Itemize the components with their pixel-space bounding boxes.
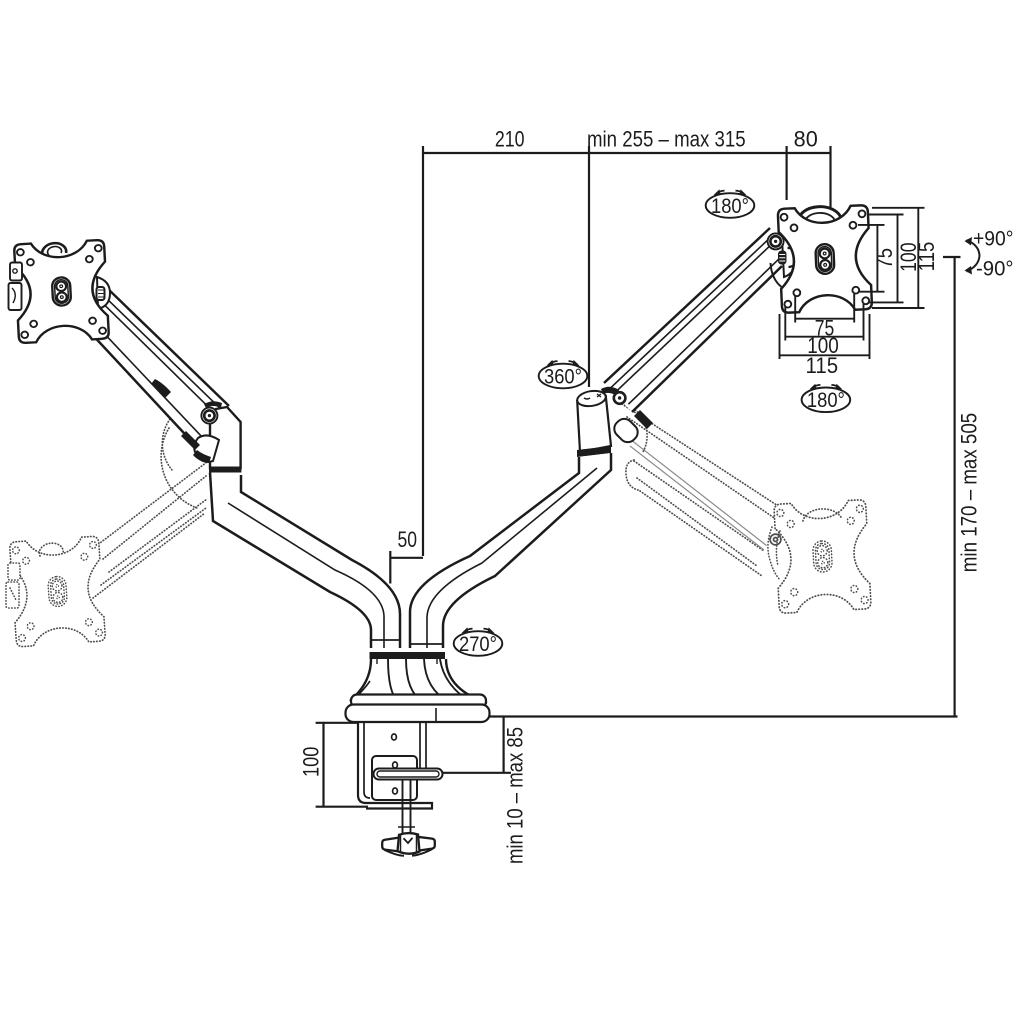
label 210 xyxy=(495,127,525,152)
dimension 50 xyxy=(390,551,423,584)
right plate pivot screw xyxy=(768,233,784,249)
clamp screw and wing knob xyxy=(382,779,435,856)
svg-text:min 10 – max 85: min 10 – max 85 xyxy=(503,727,528,864)
label 75 vertical xyxy=(872,248,897,269)
ghost right VESA plate (dotted) xyxy=(774,500,871,614)
oval 270 xyxy=(454,627,503,656)
svg-text:270°: 270° xyxy=(459,633,497,656)
ghost right arm (dotted lowered position) xyxy=(622,403,795,576)
left plate hinge xyxy=(97,277,111,309)
ghost right plate swivel ring (dotted) xyxy=(803,509,842,521)
right plate swivel ring xyxy=(799,207,841,224)
right lower arm tube into post xyxy=(410,453,611,648)
flared trumpet base xyxy=(350,659,487,703)
right VESA plate xyxy=(778,205,872,313)
svg-text:210: 210 xyxy=(495,127,525,152)
left plate swivel ring xyxy=(42,243,66,256)
base plate xyxy=(346,695,490,723)
+90/-90 tilt arrows xyxy=(965,227,1014,280)
left VESA plate xyxy=(14,240,109,343)
desk clamp bracket xyxy=(353,722,433,809)
oval 360 xyxy=(539,360,588,389)
right arm dark spring stripe xyxy=(634,410,653,429)
ghost left plate swivel ring (dotted) xyxy=(39,543,63,556)
svg-text:180°: 180° xyxy=(711,195,749,218)
svg-text:50: 50 xyxy=(398,527,418,552)
desk thickness dimension xyxy=(442,717,511,773)
ghost right plate hinge (dotted) xyxy=(768,527,780,580)
svg-text:75: 75 xyxy=(872,248,897,269)
right elbow joint xyxy=(576,387,641,457)
left elbow pivot screw xyxy=(201,408,217,424)
svg-text:min 255 – max 315: min 255 – max 315 xyxy=(587,127,746,152)
label 50 xyxy=(398,527,418,552)
post collar rings and clamp band xyxy=(370,640,446,659)
right arm upper gas-spring segment xyxy=(604,225,786,412)
ghost left VESA plate (dotted) xyxy=(9,536,105,647)
left arm upper gas-spring segment xyxy=(88,288,229,446)
svg-text:80: 80 xyxy=(794,127,818,152)
clamp height dimension xyxy=(316,723,368,807)
svg-text:180°: 180° xyxy=(807,389,845,412)
svg-text:115: 115 xyxy=(806,353,839,378)
ghost right pivot screw xyxy=(770,534,781,545)
VESA horizontal dimension lines xyxy=(780,294,870,359)
ghost left arm (dotted lowered position) xyxy=(93,407,207,598)
right elbow pivot screw xyxy=(614,392,626,404)
left arm dark spring cap xyxy=(151,379,171,398)
label 100 clamp xyxy=(299,747,324,777)
left plate side clip xyxy=(9,263,23,311)
svg-text:+90°: +90° xyxy=(973,227,1014,250)
right plate hinge xyxy=(771,238,798,287)
left elbow joint xyxy=(181,401,241,472)
svg-text:360°: 360° xyxy=(544,365,582,388)
svg-text:115: 115 xyxy=(914,242,939,271)
oval 180 bottom xyxy=(802,384,851,413)
VESA vertical dimension lines xyxy=(858,208,925,308)
label 115 vertical xyxy=(914,242,939,271)
label min 255 - max 315 xyxy=(587,127,746,152)
label 80 xyxy=(794,127,818,152)
right height dimension line xyxy=(943,257,961,716)
label 75 horizontal xyxy=(815,316,835,341)
top dimension line xyxy=(423,146,831,387)
label min 170 - max 505 xyxy=(956,413,981,572)
svg-text:100: 100 xyxy=(299,747,324,777)
label 115 horizontal xyxy=(806,353,839,378)
label 100 horizontal xyxy=(807,333,839,358)
center vertical dimension line xyxy=(422,146,424,556)
clamp shelf plate xyxy=(374,769,443,780)
svg-text:-90°: -90° xyxy=(976,258,1014,281)
left lower arm tube into post xyxy=(210,473,400,649)
label 100 vertical xyxy=(896,243,921,272)
svg-text:min 170 – max 505: min 170 – max 505 xyxy=(956,413,981,572)
oval 180 top xyxy=(706,189,755,218)
ghost left plate clip (dotted) xyxy=(6,563,20,608)
desk surface line xyxy=(489,715,958,717)
label min 10 - max 85 xyxy=(503,727,528,864)
